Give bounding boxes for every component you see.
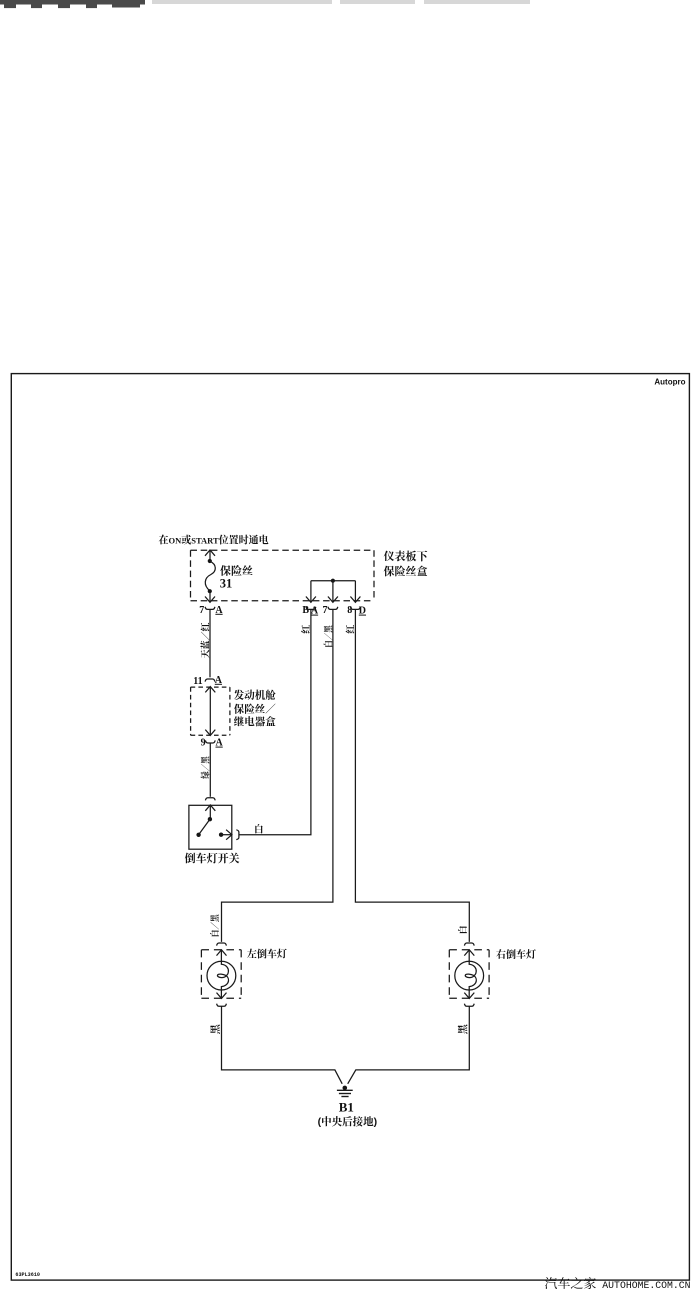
svg-text:Autopro: Autopro bbox=[654, 378, 685, 387]
switch lever bbox=[199, 819, 210, 835]
right black ground wire bbox=[348, 1007, 470, 1084]
wire sky-blue/red segment bbox=[209, 610, 211, 678]
svg-text:在ON或START位置时通电: 在ON或START位置时通电 bbox=[159, 532, 269, 547]
switch internal wire bbox=[209, 805, 211, 819]
svg-text:白: 白 bbox=[456, 925, 469, 934]
engine box entry arrow bbox=[205, 687, 215, 693]
left black ground wire bbox=[222, 1007, 343, 1084]
bus node dot bbox=[331, 579, 335, 583]
svg-text:黑: 黑 bbox=[207, 1023, 222, 1034]
right lamp bulb circle bbox=[455, 961, 484, 990]
svg-text:8: 8 bbox=[347, 605, 352, 616]
white wire: 8 line down, jog right to right lamp bbox=[355, 610, 469, 942]
top page header light fragment bbox=[152, 0, 332, 4]
bus bar inside fuse box bbox=[311, 580, 356, 582]
switch exit arrow bbox=[226, 830, 232, 840]
connector 9-A cup bbox=[205, 740, 215, 743]
left lamp exit cup bbox=[217, 1004, 227, 1007]
svg-text:B: B bbox=[302, 605, 309, 616]
svg-text:保险丝盒: 保险丝盒 bbox=[384, 563, 428, 579]
fuse 31 entry arrow bbox=[205, 550, 215, 556]
white/black wire: 7 line down, jog left to left lamp bbox=[222, 610, 333, 942]
switch lever dot bbox=[196, 833, 200, 837]
right lamp entry cup bbox=[464, 943, 474, 946]
svg-text:绿／黑: 绿／黑 bbox=[199, 755, 212, 778]
left lamp entry arrow bbox=[217, 950, 227, 956]
right lamp exit arrow bbox=[464, 993, 474, 999]
fuse F31 squiggle bbox=[205, 561, 215, 591]
svg-text:倒车灯开关: 倒车灯开关 bbox=[185, 850, 240, 866]
right lamp exit cup bbox=[464, 1004, 474, 1007]
svg-text:A: A bbox=[311, 606, 319, 617]
svg-text:仪表板下: 仪表板下 bbox=[384, 548, 429, 564]
svg-text:A: A bbox=[216, 738, 224, 749]
svg-text:红: 红 bbox=[344, 625, 357, 634]
right lamp entry arrow bbox=[464, 950, 474, 956]
connector 8-D cup bbox=[351, 607, 361, 610]
switch output wire bbox=[221, 834, 232, 836]
switch entry arrow bbox=[205, 805, 215, 811]
left lamp bulb circle bbox=[207, 961, 236, 990]
wire bbox=[209, 550, 211, 561]
svg-text:右倒车灯: 右倒车灯 bbox=[496, 946, 536, 961]
svg-text:左倒车灯: 左倒车灯 bbox=[247, 946, 287, 961]
connector 7 cup bbox=[328, 607, 338, 610]
svg-text:白: 白 bbox=[254, 821, 264, 835]
svg-text:白／黑: 白／黑 bbox=[208, 913, 221, 937]
svg-text:11: 11 bbox=[193, 676, 202, 687]
switch contact dot bbox=[219, 833, 223, 837]
right lamp filament bbox=[465, 950, 476, 999]
svg-text:(中央后接地): (中央后接地) bbox=[318, 1114, 378, 1129]
ground bar 1 bbox=[337, 1089, 353, 1091]
svg-text:黑: 黑 bbox=[455, 1023, 470, 1034]
switch output cup bbox=[236, 830, 239, 840]
wire 8 drop bbox=[354, 581, 356, 603]
left lamp dashed box bbox=[201, 950, 241, 998]
reverse light switch box bbox=[189, 805, 232, 849]
ground bar 3 bbox=[341, 1096, 348, 1098]
exit arrow 8 bbox=[350, 597, 360, 603]
node dot top of fuse bbox=[208, 559, 212, 563]
svg-text:白／黑: 白／黑 bbox=[321, 624, 334, 647]
svg-text:汽车之家 AUTOHOME.COM.CN: 汽车之家 AUTOHOME.COM.CN bbox=[544, 1273, 690, 1292]
fuse box (under-dash fuse box) dashed outline bbox=[191, 550, 375, 601]
top page header dark fragment bbox=[0, 0, 145, 5]
svg-text:31: 31 bbox=[220, 576, 233, 590]
left lamp exit arrow bbox=[217, 993, 227, 999]
right lamp dashed box bbox=[449, 950, 489, 998]
node dot bottom of fuse bbox=[208, 589, 212, 593]
switch entry cup bbox=[205, 798, 215, 801]
wire bbox=[209, 591, 211, 602]
svg-text:7: 7 bbox=[199, 605, 204, 616]
connector B-A cup bbox=[306, 607, 316, 610]
left lamp entry cup bbox=[217, 943, 227, 946]
svg-text:9: 9 bbox=[201, 737, 206, 748]
svg-text:A: A bbox=[215, 605, 223, 616]
connector 7-A female cup bbox=[205, 607, 215, 610]
switch pivot dot bbox=[208, 817, 212, 821]
exit arrow B bbox=[306, 597, 316, 603]
white wire from switch to B line bbox=[239, 610, 311, 835]
svg-text:继电器盒: 继电器盒 bbox=[234, 714, 276, 729]
engine box exit arrow bbox=[205, 730, 215, 736]
connector 11-A cup bbox=[205, 679, 215, 682]
wire 7 drop bbox=[332, 581, 334, 603]
ground node dot bbox=[343, 1086, 348, 1091]
left lamp filament bbox=[217, 950, 228, 999]
wire green/black segment bbox=[209, 743, 211, 797]
svg-text:天蓝／红: 天蓝／红 bbox=[199, 623, 212, 659]
exit arrow fuse box left bbox=[205, 597, 215, 603]
svg-text:7: 7 bbox=[323, 605, 328, 616]
wire B drop bbox=[310, 581, 312, 603]
border frame bbox=[11, 374, 689, 1281]
svg-text:D: D bbox=[359, 606, 366, 617]
engine fuse/relay box dashed outline bbox=[191, 687, 230, 735]
svg-text:A: A bbox=[215, 675, 223, 686]
svg-text:B1: B1 bbox=[339, 1100, 354, 1115]
exit arrow 7 bbox=[328, 597, 338, 603]
ground bar 2 bbox=[339, 1093, 351, 1095]
wire through engine box bbox=[209, 687, 211, 736]
svg-text:红: 红 bbox=[299, 625, 312, 634]
svg-text:63PL3610: 63PL3610 bbox=[15, 1271, 40, 1278]
